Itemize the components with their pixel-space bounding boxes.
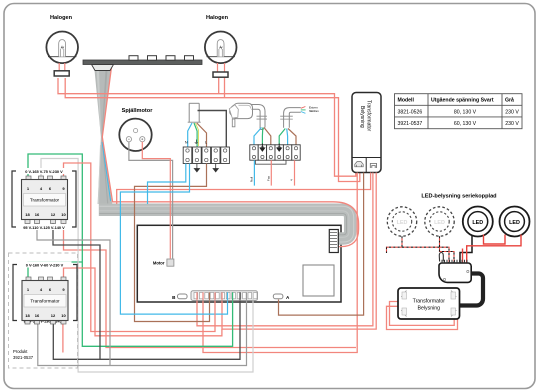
LED spot optional 1 (dashed) (387, 207, 416, 236)
plug cord elbow to gland (252, 105, 268, 130)
wire brown loop X1-3 to strip (135, 164, 210, 322)
wire green loop T1-1 to strip (28, 154, 233, 346)
jumper bar under X2 (255, 160, 286, 164)
table of models (395, 94, 523, 129)
svg-text:3921-0537: 3921-0537 (398, 121, 423, 127)
wire LED2 red to driver (467, 235, 521, 263)
terminal strip on board (191, 291, 258, 301)
luminaire rail bar (83, 56, 202, 71)
wire strip red to LED driver 1 (197, 173, 373, 326)
wire LED-transformer loop 1 (390, 302, 455, 326)
svg-text:L: L (205, 141, 207, 145)
svg-text:Grå: Grå (505, 97, 514, 104)
product dashed box (9, 253, 78, 368)
transformer T2 bracket labels (13, 262, 77, 324)
svg-text:N: N (185, 141, 188, 145)
svg-text:LED: LED (509, 220, 520, 226)
wire elbow2 green to X2-4 (279, 129, 285, 145)
svg-text:230 V: 230 V (505, 121, 519, 127)
component square inside board (303, 265, 334, 296)
terminal block X2 (6 poles) (250, 145, 300, 160)
svg-text:LED: LED (434, 220, 445, 226)
wire gland yellow to X1-2 (196, 123, 199, 146)
wire mains pair inner (halogen supply N) (65, 78, 360, 182)
wire motor gray to motor-connector (129, 142, 173, 259)
transformer lighting (vertical) (352, 93, 381, 173)
svg-text:Modell: Modell (398, 98, 415, 104)
svg-text:Belysning: Belysning (359, 106, 365, 128)
external-fan pigtails red green blue (301, 107, 306, 114)
svg-text:18: 18 (25, 313, 30, 318)
svg-text:60, 130 V: 60, 130 V (454, 121, 477, 127)
wire mains pair outer (halogen supply L) (58, 78, 356, 176)
svg-text:Produkt: Produkt (13, 349, 28, 354)
svg-text:230 V: 230 V (505, 109, 519, 115)
cable bundle band stripes (99, 206, 353, 242)
svg-text:3821-0526: 3821-0526 (398, 109, 423, 115)
wire LED-transformer loop 2 (387, 306, 458, 329)
svg-text:Halogen: Halogen (206, 15, 229, 21)
LED spot 1 (463, 207, 493, 237)
svg-text:0 V-160 V-60 V-230 V: 0 V-160 V-60 V-230 V (26, 263, 64, 268)
wire transformer stub to bottom loop A (64, 224, 357, 348)
cable bundle funnel from luminaire rail (95, 70, 113, 204)
wire red2 under transformer (117, 173, 371, 205)
svg-text:Transformator: Transformator (413, 299, 446, 305)
svg-text:Halogen: Halogen (50, 15, 73, 21)
wire LED1-LED2 red link (484, 235, 506, 245)
transformer T1 bracket labels (12, 168, 76, 230)
wire elbow2 brown to X2-6 (288, 129, 296, 145)
svg-text:16: 16 (35, 212, 40, 217)
svg-text:95 V-110 V-125 V-140 V: 95 V-110 V-125 V-140 V (23, 225, 65, 230)
wire gland green to X1-2 (194, 123, 197, 147)
svg-text:80, 130 V: 80, 130 V (454, 109, 477, 115)
svg-text:10: 10 (61, 313, 66, 318)
ground arrow below X1-2 (194, 164, 199, 172)
svg-text:Fas: Fas (266, 175, 270, 181)
wire green stub T2-1 (28, 262, 82, 281)
mains plug (229, 103, 252, 127)
terminal block X1 labels N ground L (185, 140, 207, 145)
dashed wire from optional LED 1 (387, 236, 450, 262)
control board PCB box (137, 225, 341, 302)
wire cyan A short (148, 164, 186, 205)
wire elbow2 cyan to X2-5 (286, 129, 289, 145)
svg-text:fläktfan: fläktfan (309, 109, 319, 113)
cable gland tube above terminal block X1 (188, 103, 201, 122)
motor connector on board (153, 259, 174, 266)
wire strip red to LED driver 2 (222, 173, 376, 330)
wire halogen right stub 2 (224, 77, 226, 98)
wire plug green to X2-2 (261, 128, 263, 145)
svg-text:12: 12 (51, 313, 56, 318)
connector B on board (172, 294, 187, 300)
wire salmon loop T1-9 to strip (64, 163, 216, 332)
LED spot 2 (500, 207, 530, 237)
svg-text:Transformator: Transformator (366, 100, 372, 132)
svg-text:Null: Null (250, 176, 254, 182)
wire cyan strand along bundle edge (102, 142, 111, 201)
wire LED1 black (460, 235, 472, 263)
svg-text:LED: LED (472, 220, 483, 226)
wire t2 red 10 (62, 324, 64, 353)
svg-text:12: 12 (51, 212, 56, 217)
lamp halogen right (205, 32, 237, 78)
transformer T2 (22, 277, 68, 324)
ground arrow on X2-2 (260, 144, 265, 152)
wire dark T1-12 jog (53, 224, 100, 360)
ground arrow below X1-4 (213, 164, 218, 172)
LED driver junction box (439, 252, 471, 282)
ground arrow on X2-4 (277, 144, 282, 152)
transformer T1 (22, 176, 68, 224)
ribbon connector on board (329, 230, 338, 253)
wire plug brown to X2-3 (264, 128, 271, 145)
svg-text:Transformator: Transformator (30, 299, 60, 304)
svg-text:16: 16 (35, 313, 40, 318)
svg-text:Transformator: Transformator (30, 198, 60, 203)
svg-text:10: 10 (61, 212, 66, 217)
connector A on board (273, 294, 290, 300)
svg-text:LED: LED (397, 220, 408, 226)
lamp halogen left (46, 32, 78, 77)
svg-text:18: 18 (25, 212, 30, 217)
external-fan elbow gland (280, 108, 301, 128)
motor spjallmotor (119, 119, 151, 151)
wire dark loop T2-12 to strip (53, 301, 240, 360)
wire transformer stub to bottom loop B (203, 173, 357, 353)
wire gland brown to X1-3 (197, 123, 207, 147)
wire dark from gland to X1-5 (198, 111, 227, 148)
wire brown A-connector to transformer (279, 173, 364, 316)
wire halogen right stub 1 (218, 77, 220, 94)
wire cyan B loop X1-1 to strip (120, 164, 227, 315)
svg-text:LED-belysning seriekopplad: LED-belysning seriekopplad (421, 194, 497, 200)
wire X2-1 cyan tail Null (253, 160, 255, 185)
transformer belysning (horizontal) (398, 288, 460, 319)
svg-text:Spjällmotor: Spjällmotor (122, 108, 154, 114)
LED spot optional 2 (dashed) (425, 207, 454, 236)
svg-text:Belysning: Belysning (418, 306, 441, 312)
wire gray loop T2-16 to strip (38, 301, 247, 366)
wire gland cyan to X1-1 (188, 123, 192, 147)
svg-text:0 V-165 V-75 V-230 V: 0 V-165 V-75 V-230 V (25, 169, 63, 174)
wire salmon loop T2-9 to strip (64, 268, 222, 336)
svg-text:3921-0537: 3921-0537 (13, 355, 34, 360)
thick cable driver to transformer (460, 274, 484, 306)
svg-text:Motor: Motor (153, 261, 165, 266)
wire motor red to motor-connector (142, 142, 170, 259)
wire lightgray loop T1-4 to strip (41, 159, 253, 373)
cable bundle band to board connector (99, 210, 350, 239)
svg-text:Utgående spänning Svart: Utgående spänning Svart (431, 97, 494, 104)
external-fan label (309, 105, 319, 113)
wire red stub into driver (462, 249, 464, 263)
wire lamp-feed red hugging funnel and band (102, 67, 358, 247)
terminal block X1 (5 poles) (183, 147, 229, 164)
wire X2-3 red tail Fas (270, 160, 272, 185)
wire gray T1-16 jog (37, 224, 110, 366)
dashed wire from optional LED 2 (440, 236, 455, 262)
wire plug cyan to X2-1 (254, 128, 262, 145)
wire X2-6 red tail (294, 160, 296, 185)
